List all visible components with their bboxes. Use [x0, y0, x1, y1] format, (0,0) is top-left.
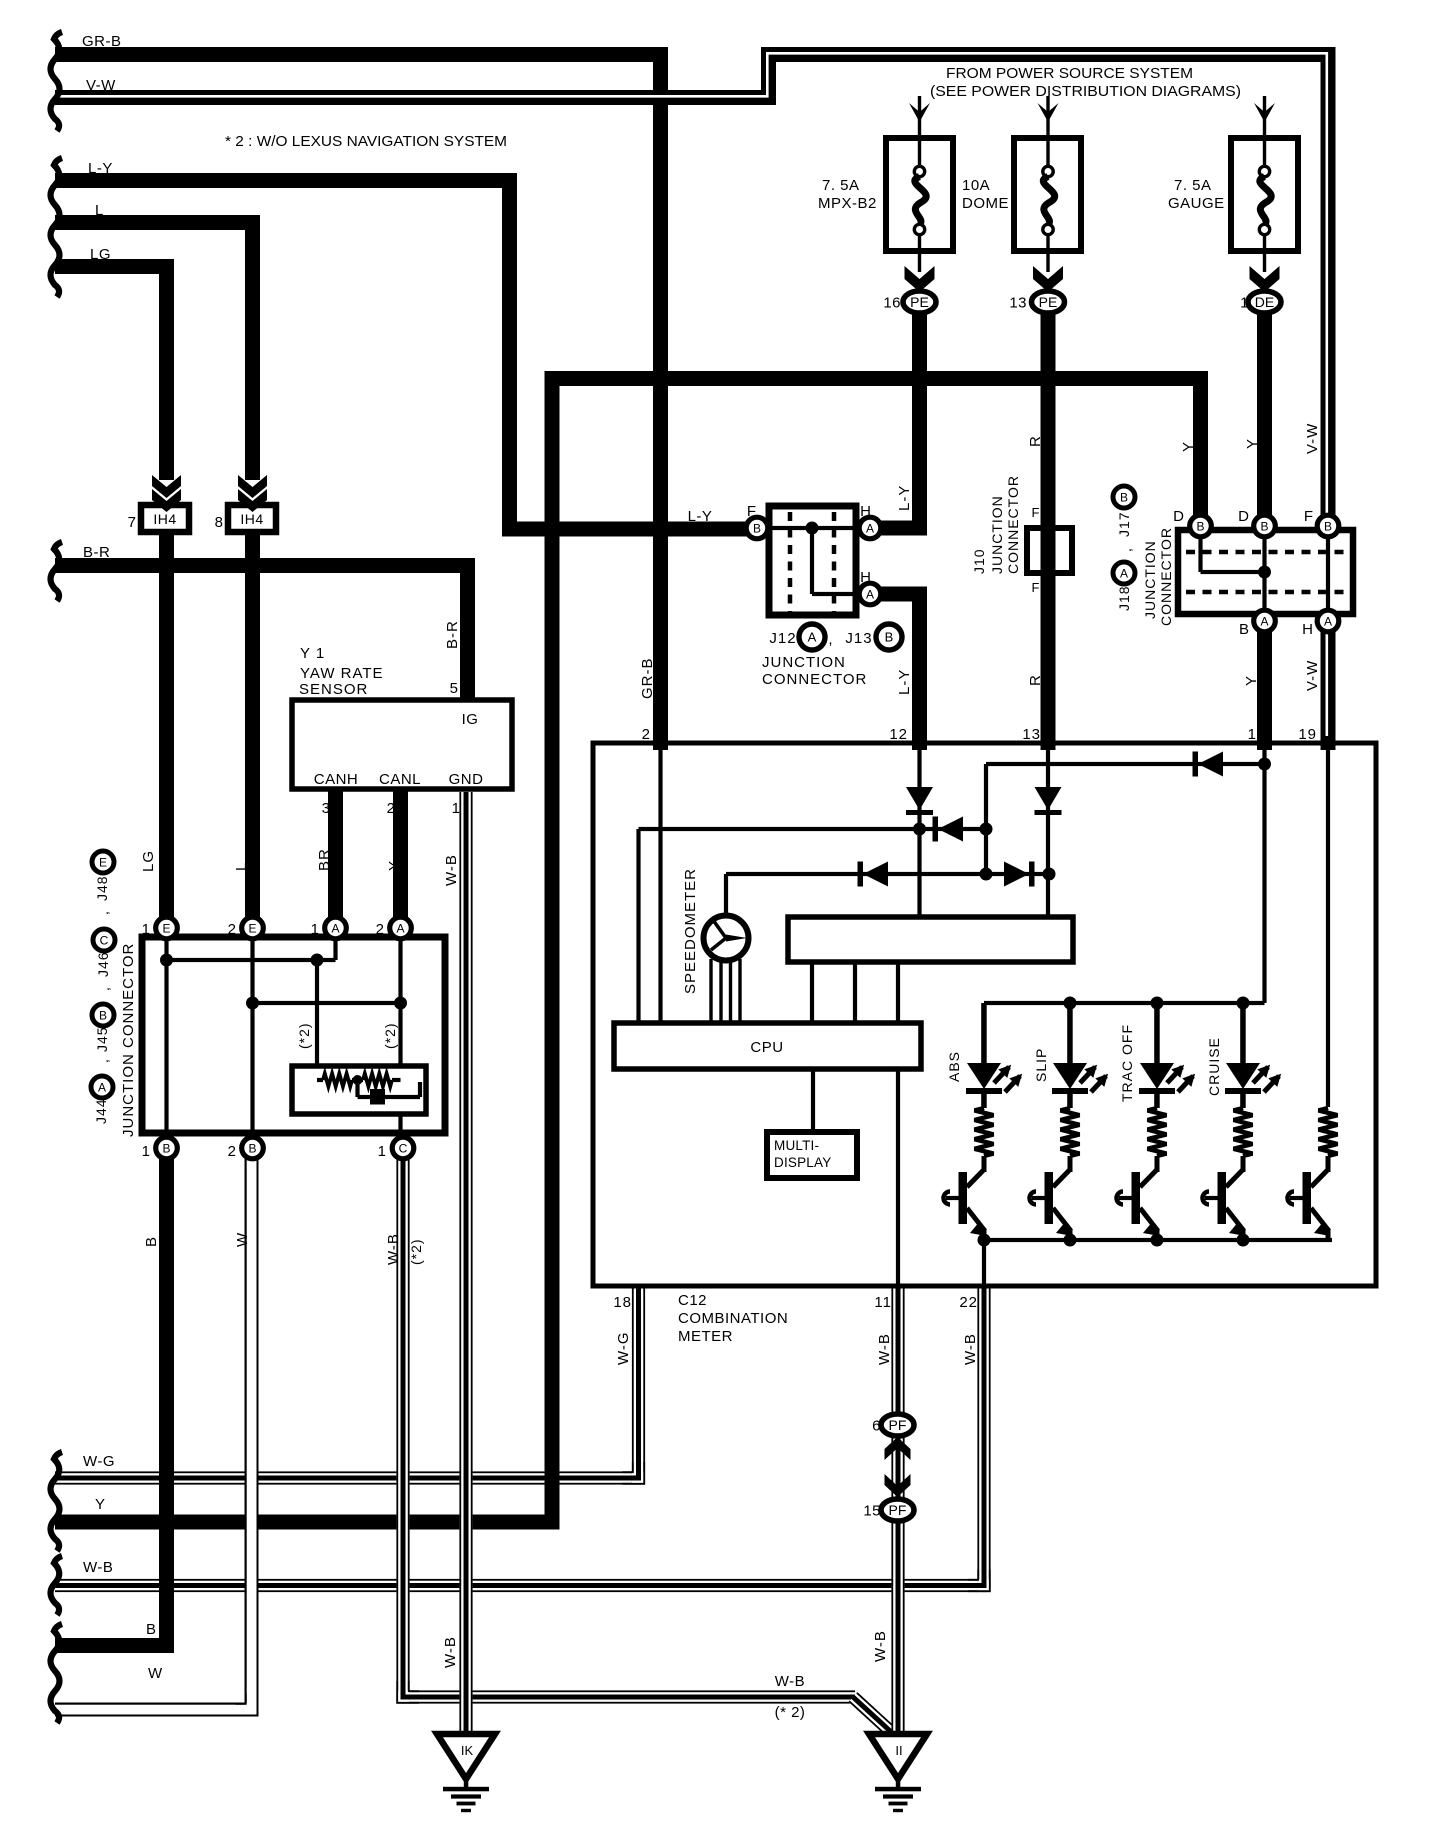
svg-text:Y 1: Y 1 — [300, 645, 325, 662]
svg-text:L-Y: L-Y — [896, 669, 913, 695]
svg-text:A: A — [331, 921, 339, 935]
svg-text:CRUISE: CRUISE — [1206, 1037, 1222, 1096]
svg-text:W-B: W-B — [83, 1559, 113, 1576]
svg-text:SLIP: SLIP — [1033, 1048, 1049, 1082]
svg-text:CANL: CANL — [379, 771, 421, 788]
svg-text:GR-B: GR-B — [639, 658, 656, 700]
svg-text:3: 3 — [322, 800, 331, 817]
svg-text:J18: J18 — [1116, 585, 1132, 611]
svg-text:L: L — [95, 202, 104, 219]
svg-text:GND: GND — [449, 771, 484, 788]
svg-text:B: B — [885, 630, 894, 645]
svg-text:PF: PF — [889, 1502, 907, 1518]
svg-text:B: B — [146, 1621, 157, 1638]
svg-text:13: 13 — [1022, 726, 1041, 743]
svg-text:W-G: W-G — [83, 1453, 115, 1470]
svg-text:L: L — [233, 862, 250, 871]
svg-text:J48: J48 — [94, 875, 110, 901]
svg-text:,: , — [95, 1058, 111, 1063]
svg-text:H: H — [860, 569, 872, 586]
svg-text:L-Y: L-Y — [88, 160, 113, 177]
svg-text:A: A — [98, 1080, 106, 1094]
svg-text:1: 1 — [378, 1143, 387, 1160]
svg-text:BR: BR — [316, 848, 333, 871]
svg-text:W-G: W-G — [615, 1331, 632, 1365]
svg-text:A: A — [1324, 614, 1332, 628]
svg-text:B: B — [248, 1141, 256, 1155]
svg-text:LG: LG — [140, 850, 157, 872]
svg-text:ABS: ABS — [946, 1051, 962, 1082]
svg-text:1: 1 — [311, 921, 320, 938]
svg-text:SENSOR: SENSOR — [299, 681, 368, 698]
svg-text:CONNECTOR: CONNECTOR — [1158, 527, 1174, 626]
svg-text:SPEEDOMETER: SPEEDOMETER — [682, 868, 699, 994]
svg-text:(*2): (*2) — [296, 1022, 312, 1049]
svg-text:CPU: CPU — [750, 1039, 783, 1056]
svg-text:B: B — [1260, 519, 1268, 533]
svg-text:1: 1 — [452, 800, 461, 817]
svg-text:H: H — [1302, 621, 1314, 638]
svg-text:F: F — [747, 503, 757, 520]
svg-text:2: 2 — [642, 726, 651, 743]
svg-text:1: 1 — [142, 921, 151, 938]
svg-text:DE: DE — [1255, 294, 1274, 310]
svg-text:,: , — [828, 631, 833, 648]
svg-text:7. 5A: 7. 5A — [1174, 177, 1212, 194]
svg-text:W-B: W-B — [876, 1333, 893, 1365]
svg-text:IK: IK — [461, 1743, 474, 1758]
svg-text:B: B — [1196, 519, 1204, 533]
svg-text:5: 5 — [450, 680, 459, 697]
svg-text:18: 18 — [613, 1294, 632, 1311]
svg-text:Y: Y — [95, 1496, 106, 1513]
svg-text:B: B — [1120, 490, 1128, 504]
svg-text:IH4: IH4 — [153, 511, 176, 527]
svg-text:B: B — [143, 1236, 160, 1247]
svg-text:19: 19 — [1298, 726, 1317, 743]
svg-text:W-B: W-B — [962, 1333, 979, 1365]
svg-text:E: E — [162, 921, 170, 935]
svg-text:Y: Y — [386, 860, 403, 871]
svg-text:B: B — [1239, 621, 1250, 638]
svg-text:(* 2): (* 2) — [775, 1704, 806, 1721]
svg-text:15: 15 — [863, 1503, 881, 1520]
svg-text:(*2): (*2) — [408, 1238, 424, 1265]
svg-text:V-W: V-W — [86, 77, 116, 94]
svg-text:(*2): (*2) — [382, 1022, 398, 1049]
svg-text:W-B: W-B — [385, 1233, 402, 1265]
svg-text:COMBINATION: COMBINATION — [678, 1310, 788, 1327]
svg-text:METER: METER — [678, 1328, 733, 1345]
svg-text:A: A — [396, 921, 404, 935]
svg-text:Y: Y — [1180, 441, 1197, 452]
svg-text:MULTI-: MULTI- — [774, 1138, 819, 1153]
svg-text:MPX-B2: MPX-B2 — [818, 195, 877, 212]
svg-text:CONNECTOR: CONNECTOR — [762, 671, 867, 688]
svg-text:J45: J45 — [94, 1026, 110, 1052]
svg-text:V-W: V-W — [1304, 423, 1321, 454]
svg-text:6: 6 — [872, 1418, 881, 1435]
svg-text:W: W — [234, 1232, 251, 1247]
svg-text:JUNCTION: JUNCTION — [989, 495, 1005, 574]
svg-text:1: 1 — [1248, 726, 1257, 743]
svg-text:Y: Y — [1244, 438, 1261, 449]
svg-text:FROM POWER SOURCE SYSTEM: FROM POWER SOURCE SYSTEM — [946, 65, 1193, 82]
svg-text:12: 12 — [889, 726, 908, 743]
svg-text:2: 2 — [387, 800, 396, 817]
svg-text:,: , — [1118, 547, 1134, 552]
svg-text:D: D — [1173, 508, 1185, 525]
svg-text:F: F — [1032, 505, 1041, 520]
svg-text:IG: IG — [462, 711, 479, 728]
svg-text:J12: J12 — [769, 630, 796, 647]
svg-text:W-B: W-B — [443, 854, 460, 886]
svg-text:F: F — [1304, 508, 1314, 525]
svg-text:(SEE POWER DISTRIBUTION DIAGRA: (SEE POWER DISTRIBUTION DIAGRAMS) — [930, 83, 1241, 100]
svg-text:JUNCTION CONNECTOR: JUNCTION CONNECTOR — [120, 943, 137, 1137]
svg-text:JUNCTION: JUNCTION — [1142, 540, 1158, 619]
svg-text:B: B — [1324, 519, 1332, 533]
svg-text:DOME: DOME — [962, 195, 1009, 212]
svg-text:V-W: V-W — [1304, 660, 1321, 691]
svg-text:16: 16 — [883, 295, 901, 312]
svg-text:C: C — [100, 933, 109, 947]
svg-text:B-R: B-R — [83, 544, 110, 561]
svg-text:B: B — [162, 1141, 170, 1155]
svg-text:PE: PE — [910, 294, 929, 310]
svg-text:W-B: W-B — [442, 1636, 459, 1668]
svg-text:,: , — [95, 910, 111, 915]
svg-text:E: E — [248, 921, 256, 935]
svg-text:L-Y: L-Y — [688, 508, 713, 525]
svg-text:2: 2 — [228, 921, 237, 938]
svg-text:7. 5A: 7. 5A — [822, 177, 860, 194]
svg-text:W-B: W-B — [775, 1673, 805, 1690]
svg-text:R: R — [1027, 435, 1044, 447]
svg-text:CANH: CANH — [314, 771, 359, 788]
svg-text:C12: C12 — [678, 1292, 707, 1309]
svg-text:B: B — [99, 1008, 107, 1022]
svg-text:CONNECTOR: CONNECTOR — [1005, 475, 1021, 574]
svg-text:D: D — [1238, 508, 1250, 525]
svg-text:F: F — [1032, 580, 1041, 595]
svg-text:PE: PE — [1039, 294, 1058, 310]
svg-text:A: A — [808, 630, 817, 645]
svg-text:10A: 10A — [962, 177, 990, 194]
svg-text:YAW RATE: YAW RATE — [300, 665, 384, 682]
svg-text:11: 11 — [874, 1294, 892, 1311]
svg-text:W-B: W-B — [872, 1630, 889, 1662]
svg-text:,: , — [96, 986, 112, 991]
svg-text:13: 13 — [1009, 295, 1027, 312]
svg-text:A: A — [866, 521, 874, 535]
svg-text:Y: Y — [1243, 675, 1260, 686]
svg-text:DISPLAY: DISPLAY — [774, 1155, 831, 1170]
svg-text:1: 1 — [142, 1143, 151, 1160]
svg-text:J10: J10 — [971, 548, 987, 574]
svg-text:J13: J13 — [845, 630, 872, 647]
svg-text:2: 2 — [228, 1143, 237, 1160]
svg-text:1: 1 — [1240, 295, 1249, 312]
svg-text:A: A — [1260, 614, 1268, 628]
svg-text:A: A — [866, 587, 874, 601]
svg-text:2: 2 — [376, 921, 385, 938]
svg-text:* 2 : W/O LEXUS NAVIGATION SYS: * 2 : W/O LEXUS NAVIGATION SYSTEM — [225, 133, 507, 150]
svg-text:JUNCTION: JUNCTION — [762, 654, 846, 671]
svg-text:E: E — [99, 855, 107, 869]
svg-text:7: 7 — [128, 514, 137, 531]
svg-text:H: H — [860, 503, 872, 520]
svg-text:IH4: IH4 — [240, 511, 263, 527]
svg-text:B: B — [753, 521, 761, 535]
svg-text:LG: LG — [90, 246, 111, 263]
svg-text:GR-B: GR-B — [82, 33, 122, 50]
svg-text:C: C — [399, 1141, 408, 1155]
svg-text:W: W — [148, 1665, 163, 1682]
svg-text:B-R: B-R — [444, 620, 461, 649]
svg-text:TRAC OFF: TRAC OFF — [1119, 1024, 1135, 1102]
svg-text:II: II — [895, 1743, 902, 1758]
svg-text:GAUGE: GAUGE — [1168, 195, 1225, 212]
svg-text:J44: J44 — [93, 1098, 109, 1124]
svg-text:J46: J46 — [95, 951, 111, 977]
svg-text:PF: PF — [889, 1417, 907, 1433]
svg-text:8: 8 — [215, 514, 224, 531]
svg-text:L-Y: L-Y — [896, 485, 913, 511]
svg-text:22: 22 — [959, 1294, 978, 1311]
svg-text:A: A — [1120, 566, 1128, 580]
svg-text:J17: J17 — [1116, 511, 1132, 537]
svg-text:R: R — [1027, 674, 1044, 686]
